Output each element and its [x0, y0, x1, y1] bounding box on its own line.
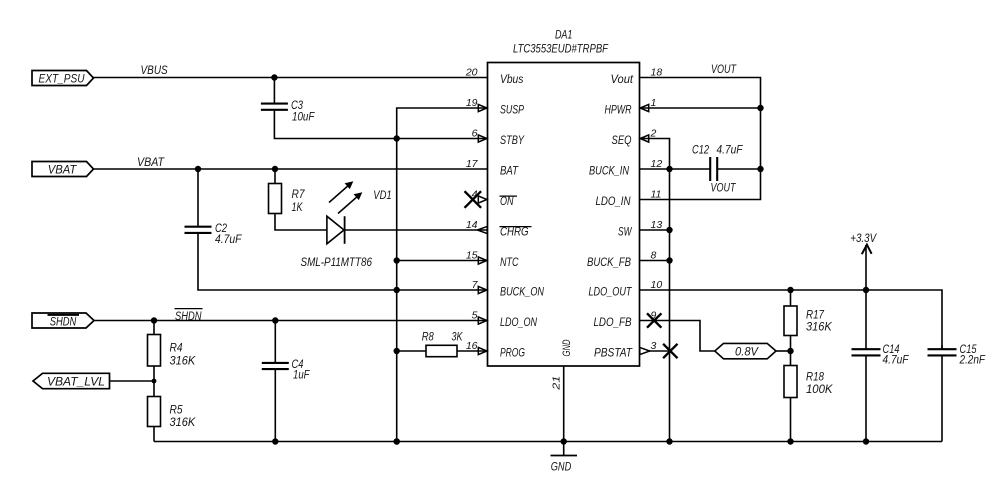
svg-text:VBAT: VBAT: [137, 157, 165, 169]
input arrow pin 15 NTC: [478, 257, 487, 264]
svg-text:3K: 3K: [452, 332, 464, 344]
wire pin 9 LDO_FB to 0.8V: [640, 313, 715, 351]
pin number 19: [466, 97, 478, 109]
capacitor C2 4.7uF: [185, 169, 397, 290]
pin number 20: [465, 67, 478, 79]
svg-text:BAT: BAT: [500, 163, 519, 177]
svg-text:BUCK_ON: BUCK_ON: [500, 284, 544, 298]
svg-text:VBUS: VBUS: [141, 65, 168, 77]
output arrow pin 14 CHRG: [477, 226, 487, 233]
svg-text:DA1: DA1: [555, 29, 573, 41]
pin number 15: [466, 250, 478, 262]
ground symbol GND: [551, 442, 578, 474]
pin label GND (rotated): [561, 339, 573, 356]
net flag 0.8V: [715, 343, 776, 358]
svg-text:PBSTAT: PBSTAT: [594, 345, 633, 359]
svg-text:1K: 1K: [292, 202, 304, 214]
svg-text:1uF: 1uF: [293, 370, 310, 382]
svg-text:LTC3553EUD#TRPBF: LTC3553EUD#TRPBF: [513, 43, 609, 55]
pin label LDO_ON: [500, 315, 537, 329]
svg-text:BUCK_FB: BUCK_FB: [587, 255, 631, 269]
pin label BUCK_FB: [587, 255, 631, 269]
pin label SW: [618, 224, 633, 238]
input arrow pin 1 HPWR: [640, 104, 649, 111]
svg-text:PROG: PROG: [500, 345, 525, 359]
IC reference DA1: [555, 29, 573, 41]
pin label Vout: [611, 72, 634, 86]
pin number 7: [472, 279, 479, 291]
wire to pin 6 STBY: [397, 138, 488, 140]
svg-text:VOUT: VOUT: [711, 183, 737, 195]
capacitor C3 10uF: [261, 78, 397, 139]
pin number 8: [651, 250, 657, 262]
pin number 13: [651, 219, 663, 231]
net flag VBAT: [32, 162, 94, 177]
pin number 17: [466, 158, 479, 170]
svg-text:R18: R18: [806, 371, 825, 383]
output arrow pin 3 PBSTAT + no-connect X: [640, 344, 678, 358]
resistor R17 316K: [784, 290, 833, 351]
resistor R8 3K: [397, 332, 488, 357]
svg-text:C12: C12: [692, 145, 709, 157]
svg-text:VBAT: VBAT: [48, 165, 77, 177]
pin label BUCK_IN: [589, 163, 629, 177]
svg-text:10uF: 10uF: [292, 111, 315, 123]
pin label STBY: [500, 133, 525, 147]
wire to pin 15 NTC: [397, 260, 488, 262]
wire pin 8 BUCK_FB: [640, 260, 670, 262]
svg-text:Vbus: Vbus: [500, 72, 523, 86]
pin number 3: [651, 340, 657, 352]
svg-text:0.8V: 0.8V: [735, 347, 759, 359]
wire to pin 7 BUCK_ON: [397, 289, 488, 291]
pin number 16: [466, 340, 478, 352]
svg-text:HPWR: HPWR: [605, 102, 632, 116]
svg-text:VBAT_LVL: VBAT_LVL: [47, 376, 105, 388]
wire VBAT net: [94, 166, 488, 172]
svg-text:LDO_IN: LDO_IN: [596, 194, 631, 208]
svg-text:NTC: NTC: [500, 255, 519, 269]
input arrow pin 4 ON + no-connect X: [465, 191, 487, 208]
IC value LTC3553EUD#TRPBF: [513, 43, 609, 55]
value label SML-P11MTT86: [301, 257, 373, 269]
label VD1: [373, 190, 391, 202]
svg-text:4.7uF: 4.7uF: [717, 145, 744, 157]
wire pin 18 Vout to VOUT: [640, 78, 764, 200]
pin number 10: [651, 279, 663, 291]
wire pin 13 SW: [640, 229, 670, 231]
pin label PROG: [500, 345, 525, 359]
svg-text:GND: GND: [561, 339, 573, 356]
pin label BUCK_ON: [500, 284, 544, 298]
LED VD1: [327, 181, 488, 244]
resistor R7 1K: [269, 169, 327, 230]
wire SHDN net: [94, 317, 488, 323]
net label VOUT (lower): [711, 183, 737, 195]
power symbol +3.3V: [850, 233, 877, 290]
svg-text:LDO_FB: LDO_FB: [594, 315, 632, 329]
svg-text:VOUT: VOUT: [711, 64, 737, 76]
svg-text:R8: R8: [422, 332, 434, 344]
svg-text:21: 21: [551, 376, 563, 391]
pin number 9: [651, 310, 657, 322]
resistor R5 316K: [148, 381, 197, 442]
pin label SUSP: [500, 102, 524, 116]
svg-text:316K: 316K: [170, 355, 197, 367]
pin number 14: [466, 219, 478, 231]
svg-text:SUSP: SUSP: [500, 102, 524, 116]
svg-text:GND: GND: [551, 462, 572, 474]
input arrow pin 5 LDO_ON: [478, 317, 487, 324]
svg-text:EXT_PSU: EXT_PSU: [39, 74, 86, 86]
svg-text:100K: 100K: [806, 384, 834, 396]
pin number 18: [651, 67, 663, 79]
svg-text:VD1: VD1: [373, 190, 391, 202]
svg-text:+3.3V: +3.3V: [850, 233, 877, 245]
svg-text:316K: 316K: [806, 322, 833, 334]
wire VBAT_LVL net: [110, 379, 157, 384]
svg-text:LDO_ON: LDO_ON: [500, 315, 537, 329]
net flag EXT_PSU: [32, 71, 94, 86]
input arrow pin 6 STBY: [478, 135, 487, 142]
wire VBUS net: [94, 74, 488, 80]
svg-text:2.2nF: 2.2nF: [959, 354, 986, 366]
net label VOUT (top): [711, 64, 737, 76]
net label SHDN (overline): [175, 309, 203, 323]
pin number 6: [472, 128, 478, 140]
pin label NTC: [500, 255, 519, 269]
wire GND rail: [154, 438, 942, 444]
pin label LDO_OUT: [589, 284, 633, 298]
svg-text:LDO_OUT: LDO_OUT: [589, 284, 633, 298]
net flag VBAT_LVL: [33, 373, 110, 388]
pin number 1: [651, 97, 657, 109]
pin label LDO_FB: [594, 315, 632, 329]
capacitor C12 4.7uF: [640, 145, 761, 181]
input arrow pin 19 SUSP: [478, 104, 487, 111]
svg-text:4.7uF: 4.7uF: [215, 234, 242, 246]
wire 0.8V to R17/R18 divider: [776, 348, 794, 354]
pin label Vbus: [500, 72, 523, 86]
pin number 11: [651, 189, 662, 201]
svg-text:SHDN: SHDN: [175, 311, 202, 323]
pin label ON: [500, 194, 518, 208]
pin label BAT: [500, 163, 519, 177]
pin number 2: [650, 128, 657, 140]
net label VBUS: [141, 65, 168, 77]
svg-text:SW: SW: [618, 224, 633, 238]
capacitor C4 1uF: [262, 321, 311, 442]
pin label PBSTAT: [594, 345, 633, 359]
pin number 21 (rotated): [551, 376, 563, 391]
pin label SEQ: [612, 133, 632, 147]
svg-text:SEQ: SEQ: [612, 133, 632, 147]
svg-text:R17: R17: [806, 310, 825, 322]
pin number 5: [472, 310, 478, 322]
svg-text:C3: C3: [291, 100, 303, 112]
svg-text:316K: 316K: [170, 417, 197, 429]
svg-text:R4: R4: [170, 343, 183, 355]
pin label HPWR: [605, 102, 632, 116]
pin label LDO_IN: [596, 194, 631, 208]
svg-text:4.7uF: 4.7uF: [883, 354, 910, 366]
input arrow pin 16 PROG: [478, 347, 487, 354]
pin number 4: [472, 189, 478, 201]
pin number 12: [651, 158, 663, 170]
net label VBAT: [137, 157, 165, 169]
resistor R18 100K: [784, 351, 834, 442]
net flag SHDN: [32, 313, 94, 329]
input arrow pin 7 BUCK_ON: [478, 286, 487, 293]
wire pin 21 GND stub: [563, 366, 565, 442]
input arrow pin 2 SEQ: [640, 135, 649, 142]
wire left vertical bus (SUSP/STBY/NTC/BUCK_ON/PROG net): [394, 108, 488, 445]
wire pin 2 SEQ + right vertical bus: [640, 139, 673, 445]
capacitor C14 4.7uF: [852, 290, 910, 442]
svg-text:SML-P11MTT86: SML-P11MTT86: [301, 257, 373, 269]
capacitor C15 2.2nF: [928, 344, 986, 442]
svg-text:R7: R7: [292, 189, 306, 201]
wire pin 1 HPWR: [640, 107, 761, 109]
svg-text:STBY: STBY: [500, 133, 525, 147]
wire pin 10 LDO_OUT (+3.3V net): [640, 287, 943, 349]
pin label CHRG: [500, 224, 532, 238]
svg-text:Vout: Vout: [611, 72, 634, 86]
svg-text:BUCK_IN: BUCK_IN: [589, 163, 629, 177]
resistor R4 316K: [148, 321, 197, 382]
svg-text:SHDN: SHDN: [50, 317, 77, 329]
op-amp/PMIC U-block DA1 LTC3553EUD#TRPBF body: [488, 63, 640, 367]
svg-text:R5: R5: [170, 404, 184, 416]
